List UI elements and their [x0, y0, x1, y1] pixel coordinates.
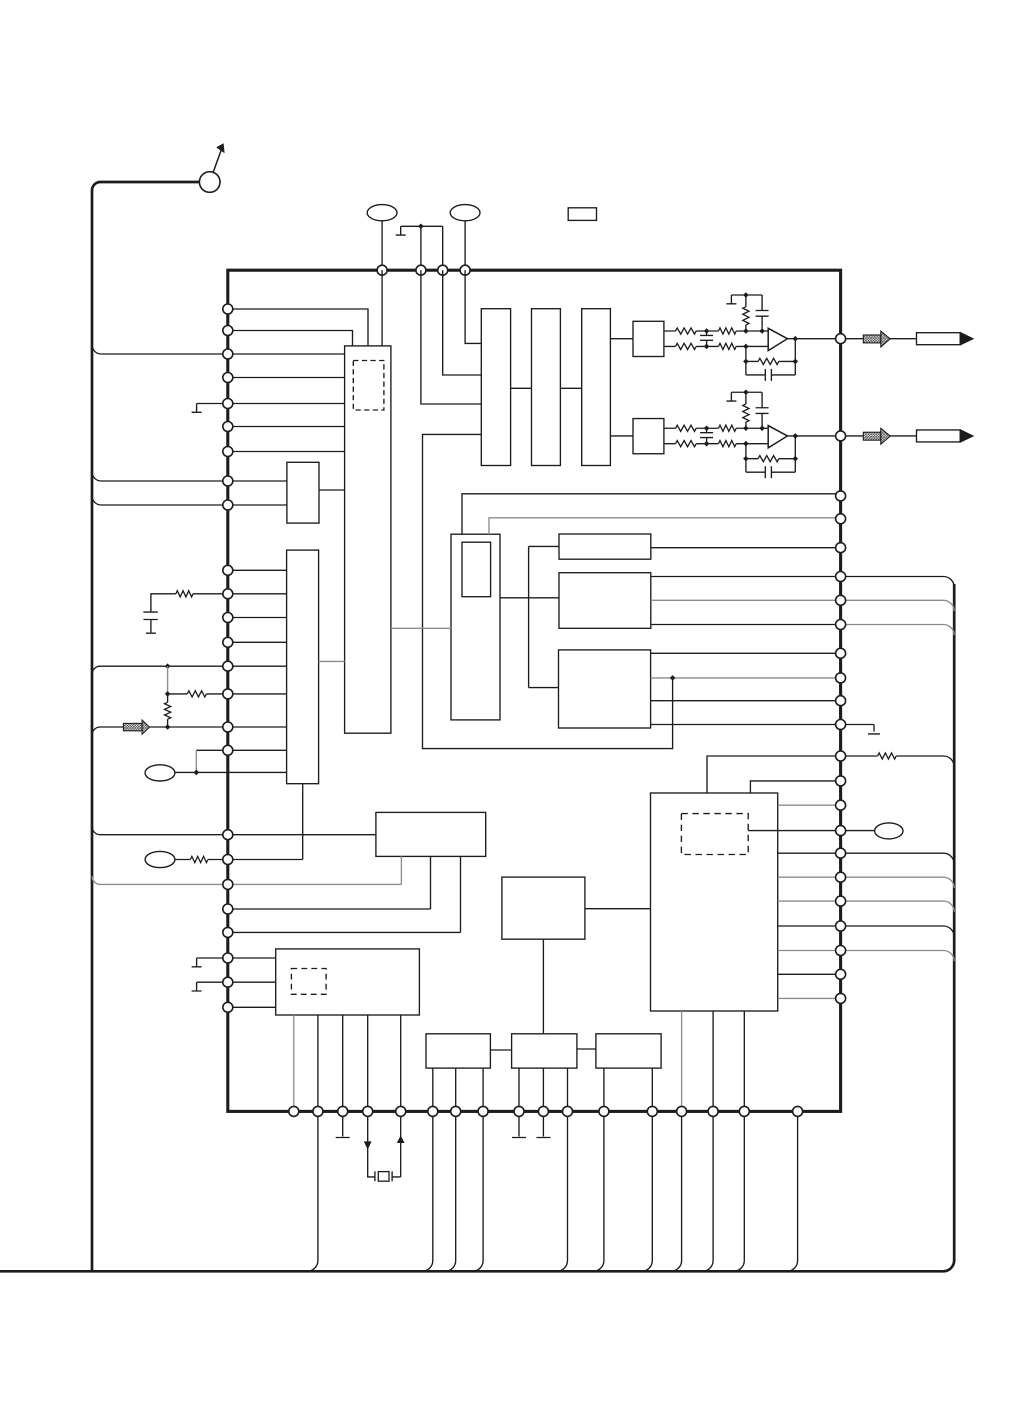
ground tick at pin B3: [336, 1116, 350, 1137]
wire pin L17 branch left: [196, 749, 228, 751]
pin bottom 5: [396, 1106, 406, 1116]
wire latch3 to pin R10 (gray): [651, 677, 841, 679]
pin bottom 3: [338, 1106, 348, 1116]
pin left 1: [223, 304, 233, 314]
block timing generator (mid): [376, 812, 486, 856]
wire PLL2 to pin B10: [542, 1068, 544, 1111]
pin left 23: [223, 953, 233, 963]
wire pin bottom net 7 to ground bus: [642, 1116, 653, 1271]
wire pin L22 to timing block: [228, 856, 461, 932]
wire top rail B: [731, 391, 762, 393]
wire TP1 stem to pin: [381, 221, 383, 270]
pin right 5: [836, 543, 846, 553]
pin audio out A: [836, 334, 846, 344]
wire bus branch to pin L9: [92, 496, 287, 505]
wire CPU interface to pin B4: [367, 1015, 369, 1111]
wire bus to pin L20 to timing block (gray): [92, 856, 401, 884]
wire pin R13 left to big block: [707, 756, 836, 793]
node junctions on rails B: [704, 425, 710, 431]
wire PLL1 to pin B8: [482, 1068, 484, 1111]
wire bus branch to pin L14: [92, 666, 287, 674]
wire decoder to serial block (gray): [319, 660, 345, 662]
wire DSP to pin R21 (gray): [778, 950, 841, 952]
wire CPU interface to pin B3: [342, 1015, 344, 1111]
block output latch 2 (wide): [559, 573, 651, 629]
node junction output B: [793, 433, 799, 439]
pin left 2: [223, 326, 233, 336]
wire latch1 to pin R5: [651, 547, 841, 549]
pin left 24: [223, 977, 233, 987]
wire pin bottom net 3 to ground bus: [445, 1116, 456, 1271]
wire top rail A: [731, 294, 762, 296]
wire pin L5 to serial block: [197, 403, 345, 405]
op-amp UA: [768, 328, 787, 350]
pin right 18: [836, 872, 846, 882]
wire pin R17 to right bus: [846, 853, 955, 864]
wire latch3 to pin R12: [651, 724, 841, 726]
wire pin L4 to serial block: [228, 377, 345, 379]
wire DSP to pin B15: [712, 1011, 714, 1111]
wire minus rail B: [664, 443, 768, 445]
pin right 11: [836, 696, 846, 706]
wire top pin 2 to filter A: [421, 270, 481, 404]
pin bottom 13: [647, 1106, 657, 1116]
wire filter C to S/H box B: [610, 435, 633, 437]
resistor R3 vertical: [165, 702, 171, 719]
wire pin L12 to decoder: [228, 617, 287, 619]
wire pin R7 to right bus (gray): [846, 600, 955, 611]
block DAC inner sub-block: [462, 542, 491, 597]
wire PLL3 to pin B13: [651, 1068, 653, 1111]
wire DSP to pin R18 (gray): [778, 876, 841, 878]
wire pin R14 left to big block: [750, 781, 835, 793]
wire pin bottom net 8 to ground bus: [671, 1116, 682, 1271]
node junction on power rail: [418, 224, 424, 230]
wire latch3 to pin R11: [651, 700, 841, 702]
wire sync separator to PLL2: [542, 939, 544, 1034]
wire pin bottom net 1 to ground bus: [307, 1116, 318, 1271]
wire TP5 to R5 to pin L19: [175, 859, 228, 861]
pin left 4: [223, 373, 233, 383]
pin left 22: [223, 927, 233, 937]
wire pin L13 to decoder: [228, 641, 287, 643]
pin left 3: [223, 349, 233, 359]
wire R1 to pin L11: [151, 594, 287, 612]
wire pin to connector B: [846, 435, 917, 437]
wire pin R6 to right bus: [846, 577, 955, 588]
wire pin R16 to TP4: [846, 830, 875, 832]
block CPU interface (dashed sub-block): [276, 949, 420, 1015]
block sample-hold A: [633, 321, 664, 356]
signal flow arrow (hatched) A: [863, 335, 881, 343]
block dashed sub-block inside CPU interface: [291, 969, 326, 995]
wire PLL1 to PLL2: [490, 1049, 511, 1051]
wire bus branch to pin L8: [92, 472, 287, 481]
node junction top rail A: [743, 292, 749, 298]
power flag F5 at pin L24: [192, 982, 202, 991]
block PLL 1: [426, 1034, 490, 1068]
wire DSP to pin R15 (gray): [778, 804, 841, 806]
op-amp U1 IC body outline: [228, 270, 841, 1111]
wire DSP dashed sub-block to pin R16: [748, 830, 840, 832]
wire latch2 to pin R7 (gray): [651, 599, 841, 601]
wire top pin 1 to serial block top: [381, 270, 383, 346]
pin left 14: [223, 661, 233, 671]
block output latch 1 (wide): [559, 534, 651, 559]
wire antenna arrow stem: [213, 150, 221, 172]
wire control register to serial block: [319, 489, 345, 491]
wire top pin 3 to filter A: [443, 270, 482, 375]
wire plus rail B: [664, 427, 768, 429]
wire serial block to DAC (gray): [391, 627, 451, 629]
pin audio out B: [836, 431, 846, 441]
wire latch2 to pin R6: [651, 576, 841, 578]
wire bottom ground bus (thick horizontal): [0, 584, 954, 1271]
wire R2 leads: [168, 693, 287, 695]
resistor R5 at pin L19: [190, 856, 208, 862]
resistor R2 at pin L15: [187, 691, 206, 697]
pin bottom 14: [677, 1106, 687, 1116]
wire pin L21 to timing block: [228, 856, 431, 909]
node antenna terminal circle: [199, 172, 220, 193]
wire arrow to pin L16: [150, 726, 287, 728]
pin left 13: [223, 637, 233, 647]
wire PLL2 to pin B9: [518, 1068, 520, 1111]
capacitor CB2 vertical: [756, 392, 769, 428]
pin right 6: [836, 572, 846, 582]
pin right 7: [836, 595, 846, 605]
pin right 8: [836, 620, 846, 630]
node junctions on rails A: [704, 328, 710, 334]
wire plus rail A: [664, 330, 768, 332]
power flag F1: [396, 226, 406, 235]
node arrowhead down (clock out): [364, 1141, 372, 1149]
wire pin bottom net 10 to ground bus: [734, 1116, 745, 1271]
wire left supply bus (thick vertical): [92, 182, 199, 1271]
op-amp UB: [768, 426, 787, 448]
wire DSP to pin R20: [778, 925, 841, 927]
block DSP core (large, with dashed sub-block): [651, 793, 778, 1011]
node junction output A: [793, 336, 799, 342]
wire pin L7 to serial block: [228, 451, 345, 453]
wire PLL2 to PLL3: [577, 1048, 596, 1050]
wire DAC output splitter: [500, 546, 559, 687]
wire R4 leads to right bus: [846, 756, 955, 767]
wire clock L-bus to filter A: [423, 434, 673, 748]
wire crystal to pin B5: [392, 1116, 401, 1177]
wire pin L17 to decoder: [228, 749, 287, 751]
wire PLL2 to pin B11: [567, 1068, 569, 1111]
block dashed sub-block inside serial interface: [353, 361, 384, 411]
block output latch 3 (wide): [559, 650, 651, 728]
pin left 19: [223, 855, 233, 865]
wire pin bottom net 11 to ground bus: [787, 1116, 798, 1271]
node test point TP5 (ellipse): [145, 851, 175, 867]
wire RAe leads: [745, 295, 747, 331]
capacitor CA3 feedback: [765, 369, 771, 381]
wire feedback loop A: [746, 339, 795, 375]
pin left 25: [223, 1002, 233, 1012]
pin top 2: [416, 265, 426, 275]
wire pin R8 to right bus (gray): [846, 625, 955, 636]
wire pin L25 to CPU interface: [228, 1006, 276, 1008]
wire pin L10 to decoder: [228, 569, 287, 571]
pin top 4: [460, 265, 470, 275]
wire pin L3 to serial block: [101, 353, 344, 355]
ground tick at pin B10: [536, 1116, 550, 1137]
resistor RBd: [719, 441, 737, 447]
pin right 23: [836, 993, 846, 1003]
pin right 14: [836, 776, 846, 786]
node junction J1: [165, 663, 171, 669]
wire pin R19 to right bus (gray): [846, 901, 955, 912]
power flag F3 at pin R12: [846, 725, 880, 734]
wire DSP to pin R17: [778, 852, 841, 854]
connector label bar A: [917, 333, 961, 345]
power flag FB: [726, 392, 736, 401]
wire CPU interface to pin B2: [317, 1015, 319, 1111]
wire bus branch arc to pin L3: [92, 345, 101, 354]
wire pin bottom net 4 to ground bus: [472, 1116, 483, 1271]
resistor RAe vertical: [743, 307, 749, 325]
signal flow arrow (hatched) B: [863, 432, 881, 440]
wire DAC top to pin R4 (gray): [489, 518, 841, 534]
block dashed sub-block inside DSP: [681, 814, 748, 855]
wire pin L6 to serial block: [228, 426, 345, 428]
wire DSP to pin B14 (gray): [681, 1011, 683, 1111]
pin left 9: [223, 500, 233, 510]
wire pin L23 to CPU interface: [197, 957, 276, 959]
node junctions feedback A: [743, 359, 749, 365]
wire PLL1 to pin B6: [432, 1068, 434, 1111]
pin bottom 8: [478, 1106, 488, 1116]
wire DAC top to pin R3: [462, 494, 841, 534]
node junction J2: [165, 691, 171, 697]
wire DSP to pin B16: [743, 1011, 745, 1111]
pin left 17: [223, 745, 233, 755]
crystal X1: [375, 1171, 392, 1181]
pin right 22: [836, 969, 846, 979]
node test point TP1 (ellipse): [367, 205, 397, 221]
wire decoder bottom to pin L19 net: [302, 784, 304, 860]
wire bus branch to pin L18 to timing block: [92, 827, 376, 835]
wire pin L2 to serial block top: [228, 331, 353, 346]
resistor RAd: [719, 343, 737, 349]
pin left 8: [223, 476, 233, 486]
block digital filter B: [532, 309, 561, 466]
wire bus branch to signal arrow: [92, 727, 123, 735]
pin right 12: [836, 720, 846, 730]
wire op-amp A output to pin: [787, 338, 840, 340]
resistor RAb: [719, 328, 737, 334]
pin right 16: [836, 826, 846, 836]
block mode decoder (tall left): [287, 550, 319, 784]
node test point TP2 (ellipse): [450, 205, 480, 221]
wire latch3 to pin R9: [651, 652, 841, 654]
power flag F4 at pin L23: [192, 958, 202, 967]
capacitor CB3 feedback: [765, 466, 771, 478]
resistor RAc: [676, 343, 697, 349]
node junction J3: [165, 724, 171, 730]
wire DSP to pin R22: [778, 973, 841, 975]
wire op-amp B output to pin: [787, 435, 840, 437]
wire latch2 to pin R8: [651, 624, 841, 626]
resistor R4 at pin R13: [878, 753, 897, 759]
wire J1 down to J2 (gray): [167, 666, 169, 694]
resistor RBe vertical: [743, 404, 749, 422]
wire pin bottom net 5 to ground bus: [557, 1116, 568, 1271]
capacitor C1 to ground: [143, 612, 157, 633]
wire sync separator to DSP: [585, 908, 651, 910]
block digital filter C: [582, 309, 611, 466]
wire DSP to pin R19 (gray): [778, 900, 841, 902]
pin left 10: [223, 565, 233, 575]
block sync separator (mid-lower): [502, 877, 585, 939]
wire pin R20 to right bus: [846, 926, 955, 937]
block DAC core (tall, with inner sub-block): [451, 534, 500, 720]
wire top pin 4 to filter A: [465, 270, 481, 343]
resistor RAf feedback: [758, 358, 779, 364]
connector arrowhead B: [960, 429, 974, 443]
capacitor CB1 between rails: [700, 428, 713, 443]
power flag F2 at pin L5: [192, 404, 202, 413]
block sample-hold B: [633, 419, 664, 454]
pin right 19: [836, 896, 846, 906]
power flag FA: [726, 295, 736, 304]
pin top 3: [438, 265, 448, 275]
connector arrowhead A: [960, 332, 974, 346]
node arrowhead up (clock in): [397, 1135, 405, 1143]
resistor RAa: [676, 328, 697, 334]
wire pin L17 branch down (gray): [195, 750, 197, 772]
wire filter C to S/H box A: [610, 338, 633, 340]
wire pin to connector A: [846, 338, 917, 340]
wire pin bottom net 6 to ground bus: [593, 1116, 604, 1271]
pin right 3: [836, 491, 846, 501]
wire filter B to C: [560, 387, 581, 389]
pin right 9: [836, 648, 846, 658]
pin left 20: [223, 879, 233, 889]
pin bottom 11: [563, 1106, 573, 1116]
pin left 15: [223, 689, 233, 699]
node junction top rail B: [743, 389, 749, 395]
resistor RBb: [719, 425, 737, 431]
node junctions feedback B: [743, 456, 749, 462]
block PLL 2: [512, 1034, 577, 1068]
pin right 20: [836, 921, 846, 931]
pin bottom 1: [289, 1106, 299, 1116]
pin bottom 15: [708, 1106, 718, 1116]
wire R3 leads: [167, 694, 169, 727]
wire filter A to B: [511, 387, 532, 389]
pin bottom 4: [363, 1106, 373, 1116]
wire RBe leads: [745, 392, 747, 428]
pin left 18: [223, 830, 233, 840]
pin left 5: [223, 399, 233, 409]
block digital filter A: [481, 309, 510, 466]
pin bottom 10: [538, 1106, 548, 1116]
resistor RBc: [676, 441, 697, 447]
pin left 16: [223, 722, 233, 732]
pin left 6: [223, 422, 233, 432]
label box (empty) top: [568, 208, 596, 221]
wire pin L24 to CPU interface: [197, 981, 276, 983]
capacitor CA1 between rails: [700, 331, 713, 346]
wire PLL3 to pin B12: [603, 1068, 605, 1111]
block serial interface (tall, with dashed sub-block): [345, 346, 391, 733]
pin right 17: [836, 848, 846, 858]
pin bottom 7: [451, 1106, 461, 1116]
wire feedback loop B: [746, 436, 795, 472]
wire TP3 to decoder: [175, 771, 287, 773]
block PLL 3: [596, 1034, 661, 1068]
node test point TP4 (ellipse): [875, 823, 903, 839]
wire power rail to pins: [401, 226, 443, 270]
resistor R1 at pin L11: [176, 591, 193, 597]
wire pin R18 to right bus (gray): [846, 877, 955, 888]
pin right 4: [836, 514, 846, 524]
block control register (upper small): [287, 462, 319, 523]
node junction clock net: [670, 675, 676, 681]
pin left 7: [223, 447, 233, 457]
wire pin L19 to decoder bottom net: [228, 859, 303, 861]
node antenna arrowhead: [216, 143, 224, 153]
wire DSP to pin R23 (gray): [778, 997, 841, 999]
connector label bar B: [917, 430, 961, 442]
pin bottom 12: [599, 1106, 609, 1116]
node test point TP3 (ellipse): [145, 765, 175, 781]
wire minus rail A: [664, 345, 768, 347]
wire CPU interface to pin B5: [400, 1015, 402, 1111]
wire TP2 stem to pin: [464, 221, 466, 270]
pin left 12: [223, 613, 233, 623]
pin left 21: [223, 904, 233, 914]
pin bottom 9: [514, 1106, 524, 1116]
pin right 10: [836, 673, 846, 683]
signal flow arrow (hatched) left: [123, 723, 142, 730]
wire pin bottom net 9 to ground bus: [702, 1116, 713, 1271]
node junction J4: [194, 770, 200, 776]
resistor RBa: [676, 425, 697, 431]
pin right 21: [836, 946, 846, 956]
resistor RBf feedback: [758, 456, 779, 462]
pin bottom 16: [739, 1106, 749, 1116]
pin bottom 2: [313, 1106, 323, 1116]
wire CPU interface to pin B1 (gray): [293, 1015, 295, 1111]
wire pin L1 to serial block top: [228, 309, 368, 346]
capacitor CA2 vertical: [756, 295, 769, 331]
ground tick at pin B9: [512, 1116, 526, 1137]
pin right 13: [836, 751, 846, 761]
pin left 11: [223, 589, 233, 599]
pin bottom 17: [793, 1106, 803, 1116]
pin bottom 6: [428, 1106, 438, 1116]
pin top 1: [377, 265, 387, 275]
wire pin bottom net 2 to ground bus: [422, 1116, 433, 1271]
pin right 15: [836, 800, 846, 810]
wire pin R21 to right bus (gray): [846, 951, 955, 962]
wire pin B4 to crystal: [368, 1116, 375, 1177]
wire PLL1 to pin B7: [455, 1068, 457, 1111]
